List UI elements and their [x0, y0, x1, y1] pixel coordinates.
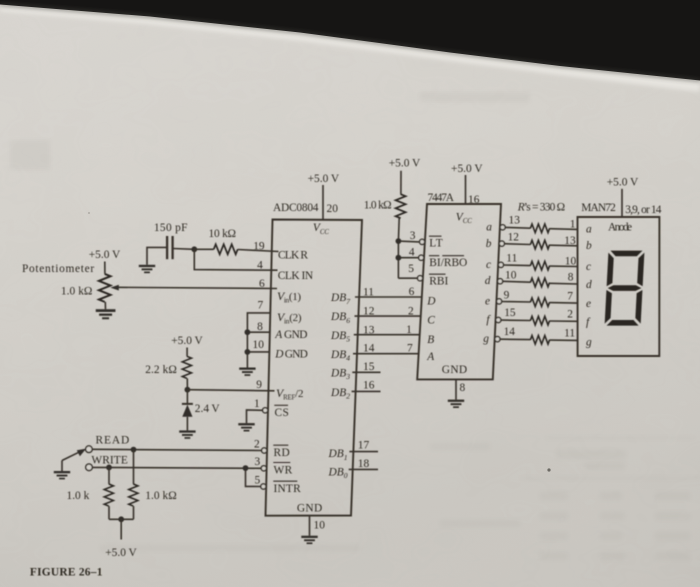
svg-text:9: 9 — [256, 379, 262, 391]
svg-text:c: c — [586, 261, 591, 273]
svg-text:18: 18 — [358, 458, 370, 470]
svg-text:10 kΩ: 10 kΩ — [209, 228, 237, 240]
svg-text:7: 7 — [258, 300, 264, 312]
svg-text:WR: WR — [274, 464, 293, 476]
svg-text:+5.0 V: +5.0 V — [451, 163, 483, 175]
svg-text:13: 13 — [564, 235, 576, 247]
svg-text:8: 8 — [460, 382, 466, 394]
svg-text:1.0 kΩ: 1.0 kΩ — [61, 286, 93, 298]
svg-text:d: d — [586, 279, 592, 291]
svg-text:14: 14 — [504, 326, 516, 338]
svg-text:13: 13 — [509, 214, 521, 226]
svg-text:10: 10 — [253, 339, 265, 351]
svg-text:CLK IN: CLK IN — [278, 270, 313, 282]
svg-text:12: 12 — [508, 232, 520, 244]
svg-text:15: 15 — [504, 307, 516, 319]
svg-text:150 pF: 150 pF — [154, 222, 188, 234]
svg-text:Potentiometer: Potentiometer — [22, 263, 94, 275]
svg-text:7: 7 — [567, 291, 573, 303]
svg-text:16: 16 — [468, 194, 480, 206]
svg-text:+5.0 V: +5.0 V — [607, 177, 639, 189]
svg-text:b: b — [486, 238, 492, 250]
svg-text:2.4 V: 2.4 V — [195, 403, 221, 415]
svg-text:GND: GND — [297, 503, 323, 515]
svg-text:INTR: INTR — [274, 483, 302, 495]
svg-text:C: C — [427, 314, 435, 326]
svg-text:GND: GND — [442, 364, 468, 376]
svg-text:+5.0 V: +5.0 V — [105, 547, 137, 559]
svg-text:Anode: Anode — [608, 222, 632, 234]
svg-text:8: 8 — [257, 321, 263, 333]
svg-text:13: 13 — [363, 324, 375, 336]
svg-text:3,9, or 14: 3,9, or 14 — [625, 204, 661, 216]
svg-text:A: A — [426, 351, 434, 363]
svg-text:a: a — [486, 221, 492, 233]
svg-text:11: 11 — [363, 287, 374, 299]
svg-text:RBI: RBI — [429, 276, 448, 288]
svg-text:2: 2 — [567, 308, 573, 320]
svg-text:4: 4 — [409, 247, 415, 259]
svg-text:D: D — [426, 295, 436, 307]
svg-text:A GND: A GND — [274, 329, 307, 341]
svg-text:17: 17 — [358, 440, 370, 452]
svg-text:BI/RBO: BI/RBO — [429, 257, 467, 269]
svg-text:1.0 k: 1.0 k — [67, 490, 90, 502]
svg-text:6: 6 — [409, 286, 415, 298]
svg-text:g: g — [586, 337, 592, 349]
svg-text:2: 2 — [254, 439, 260, 451]
svg-text:3: 3 — [410, 230, 416, 242]
svg-text:1.0 kΩ: 1.0 kΩ — [145, 490, 177, 502]
svg-text:6: 6 — [259, 278, 265, 290]
svg-text:Vin(2): Vin(2) — [277, 310, 302, 326]
svg-text:R’s = 330 Ω: R’s = 330 Ω — [517, 202, 565, 214]
svg-text:d: d — [485, 275, 491, 287]
svg-text:5: 5 — [408, 263, 414, 275]
svg-text:ADC0804: ADC0804 — [273, 202, 319, 214]
svg-text:8: 8 — [568, 272, 574, 284]
svg-text:FIGURE 26–1: FIGURE 26–1 — [30, 566, 103, 578]
svg-text:11: 11 — [564, 328, 575, 340]
svg-text:9: 9 — [504, 289, 510, 301]
svg-text:READ: READ — [96, 435, 130, 447]
svg-text:4: 4 — [257, 260, 263, 272]
svg-text:MAN72: MAN72 — [581, 202, 616, 214]
svg-text:CS: CS — [275, 407, 290, 419]
svg-text:g: g — [483, 333, 489, 345]
svg-text:12: 12 — [363, 306, 375, 318]
svg-text:14: 14 — [363, 343, 375, 355]
svg-text:B: B — [427, 334, 434, 346]
svg-text:1: 1 — [254, 398, 260, 410]
svg-text:11: 11 — [506, 253, 517, 265]
svg-text:CLK R: CLK R — [278, 249, 308, 261]
svg-text:19: 19 — [253, 241, 265, 253]
svg-text:+5.0 V: +5.0 V — [389, 158, 421, 170]
svg-text:2.2 kΩ: 2.2 kΩ — [145, 364, 177, 376]
svg-text:+5.0 V: +5.0 V — [89, 249, 121, 261]
svg-text:Vin(1): Vin(1) — [277, 289, 301, 305]
svg-text:3: 3 — [255, 456, 261, 468]
svg-text:LT: LT — [429, 238, 443, 250]
svg-text:15: 15 — [363, 361, 375, 373]
svg-text:5: 5 — [255, 475, 261, 487]
svg-text:a: a — [586, 224, 592, 236]
svg-text:c: c — [486, 259, 491, 271]
svg-text:10: 10 — [505, 270, 517, 282]
svg-text:1: 1 — [406, 324, 412, 336]
svg-text:e: e — [485, 295, 490, 307]
svg-text:D GND: D GND — [274, 348, 308, 360]
svg-text:7: 7 — [407, 343, 413, 355]
svg-text:7447A: 7447A — [428, 192, 455, 204]
svg-text:b: b — [586, 240, 592, 252]
svg-text:1: 1 — [570, 219, 576, 231]
svg-text:16: 16 — [363, 380, 375, 392]
svg-text:+5.0 V: +5.0 V — [171, 335, 203, 347]
svg-text:10: 10 — [565, 255, 577, 267]
svg-text:2: 2 — [408, 306, 414, 318]
svg-text:20: 20 — [327, 203, 339, 215]
svg-text:1.0 kΩ: 1.0 kΩ — [364, 200, 392, 212]
svg-text:+5.0 V: +5.0 V — [308, 173, 340, 185]
svg-text:RD: RD — [274, 447, 291, 459]
svg-text:e: e — [586, 298, 591, 310]
svg-text:10: 10 — [314, 520, 326, 532]
svg-text:WRITE: WRITE — [91, 455, 128, 467]
